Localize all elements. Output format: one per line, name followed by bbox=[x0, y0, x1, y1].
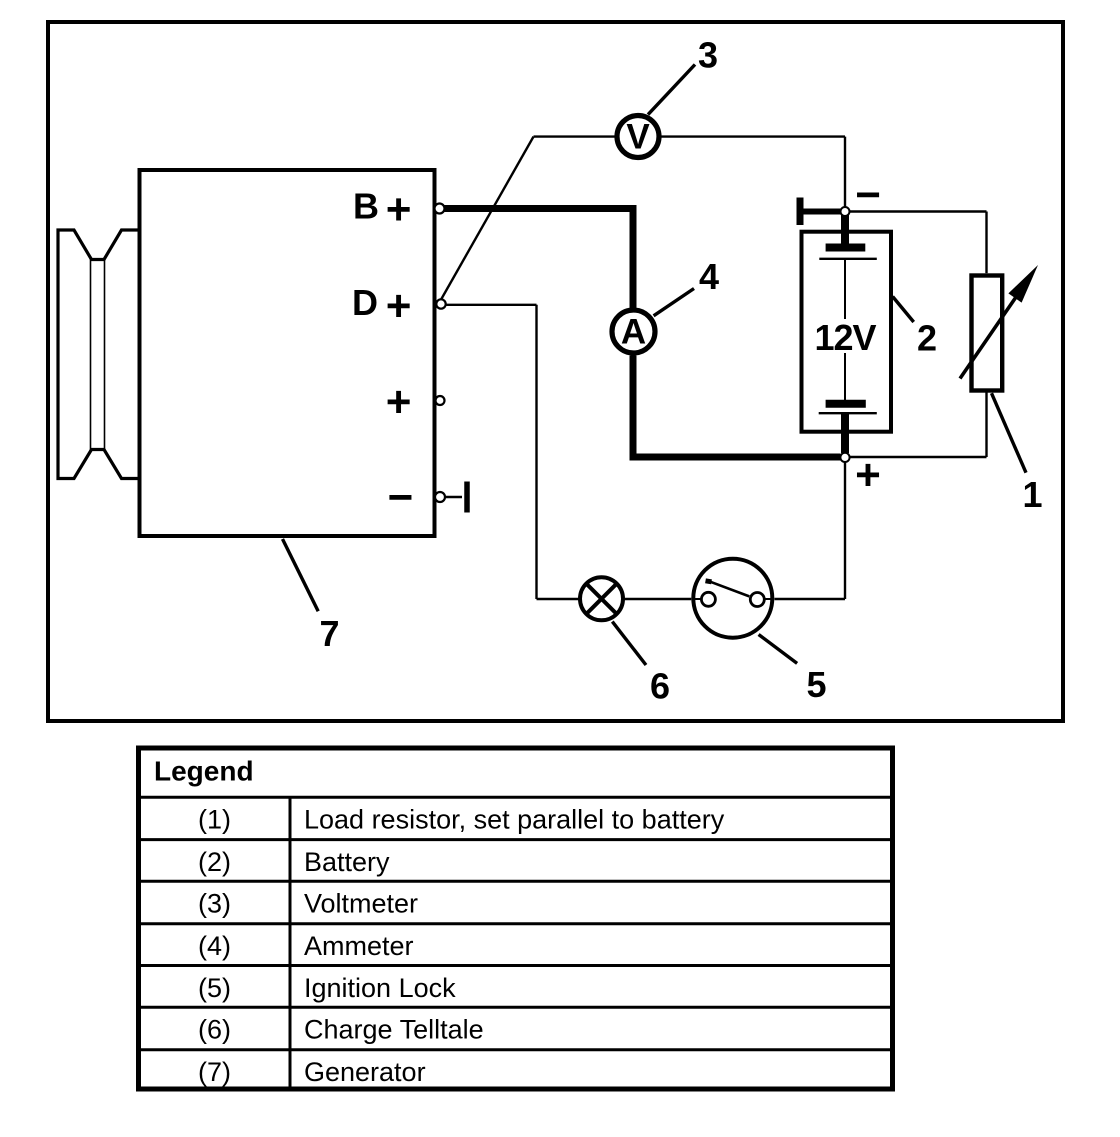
svg-text:5: 5 bbox=[806, 664, 826, 705]
svg-text:V: V bbox=[626, 118, 650, 157]
svg-text:+: + bbox=[855, 451, 881, 500]
svg-text:B: B bbox=[353, 186, 379, 227]
svg-text:Ammeter: Ammeter bbox=[304, 931, 414, 961]
svg-text:A: A bbox=[621, 313, 646, 352]
svg-text:7: 7 bbox=[319, 613, 339, 654]
svg-text:−: − bbox=[388, 473, 414, 522]
svg-text:12V: 12V bbox=[814, 317, 876, 358]
svg-text:3: 3 bbox=[698, 35, 718, 76]
svg-text:+: + bbox=[386, 281, 412, 330]
svg-text:Legend: Legend bbox=[154, 756, 254, 787]
svg-text:+: + bbox=[386, 377, 412, 426]
svg-text:Charge Telltale: Charge Telltale bbox=[304, 1015, 484, 1045]
svg-text:(4): (4) bbox=[198, 931, 231, 961]
svg-text:(6): (6) bbox=[198, 1015, 231, 1045]
svg-text:Battery: Battery bbox=[304, 847, 390, 877]
svg-text:6: 6 bbox=[650, 666, 670, 707]
svg-text:(7): (7) bbox=[198, 1057, 231, 1087]
svg-text:4: 4 bbox=[699, 256, 719, 297]
svg-text:D: D bbox=[352, 282, 378, 323]
svg-text:2: 2 bbox=[917, 318, 937, 359]
svg-text:(1): (1) bbox=[198, 804, 231, 834]
svg-text:−: − bbox=[855, 171, 881, 220]
svg-text:(5): (5) bbox=[198, 973, 231, 1003]
svg-text:Ignition Lock: Ignition Lock bbox=[304, 973, 456, 1003]
svg-text:Load resistor, set parallel to: Load resistor, set parallel to battery bbox=[304, 804, 725, 834]
svg-text:+: + bbox=[386, 185, 412, 234]
svg-text:Generator: Generator bbox=[304, 1057, 426, 1087]
svg-text:Voltmeter: Voltmeter bbox=[304, 889, 418, 919]
svg-text:1: 1 bbox=[1022, 474, 1042, 515]
svg-text:(3): (3) bbox=[198, 889, 231, 919]
svg-text:(2): (2) bbox=[198, 847, 231, 877]
